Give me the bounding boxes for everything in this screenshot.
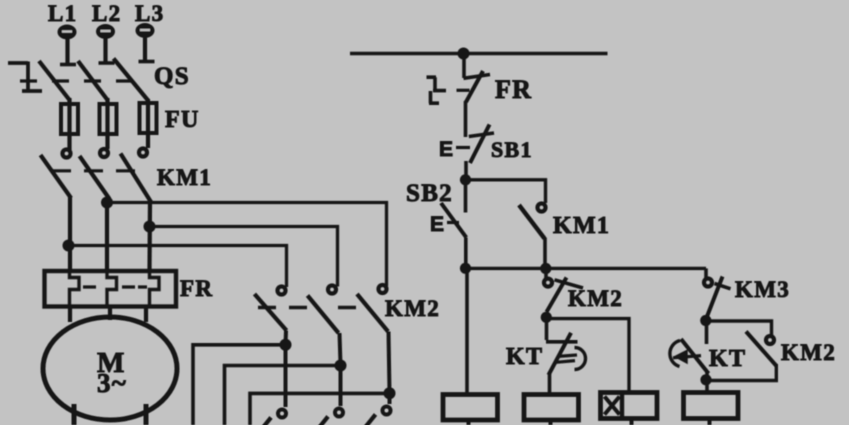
svg-text:FR: FR (495, 75, 532, 104)
svg-text:KT: KT (506, 344, 543, 370)
svg-text:SB2: SB2 (406, 180, 453, 207)
svg-text:SB1: SB1 (491, 137, 533, 162)
svg-text:KT: KT (709, 346, 746, 372)
svg-text:3~: 3~ (97, 368, 127, 398)
svg-text:FR: FR (180, 276, 213, 301)
svg-text:FU: FU (165, 107, 200, 133)
svg-text:QS: QS (154, 63, 190, 90)
svg-text:L2: L2 (92, 1, 121, 26)
svg-text:L1: L1 (48, 1, 77, 26)
svg-text:KM3: KM3 (735, 277, 790, 302)
svg-text:KM2: KM2 (781, 340, 836, 365)
svg-text:KM2: KM2 (568, 286, 623, 311)
svg-text:L3: L3 (135, 1, 164, 26)
svg-text:E: E (439, 138, 454, 161)
svg-text:KM2: KM2 (385, 296, 440, 321)
svg-text:E: E (430, 213, 445, 236)
svg-text:KM1: KM1 (157, 165, 212, 190)
svg-text:KM1: KM1 (553, 213, 610, 239)
